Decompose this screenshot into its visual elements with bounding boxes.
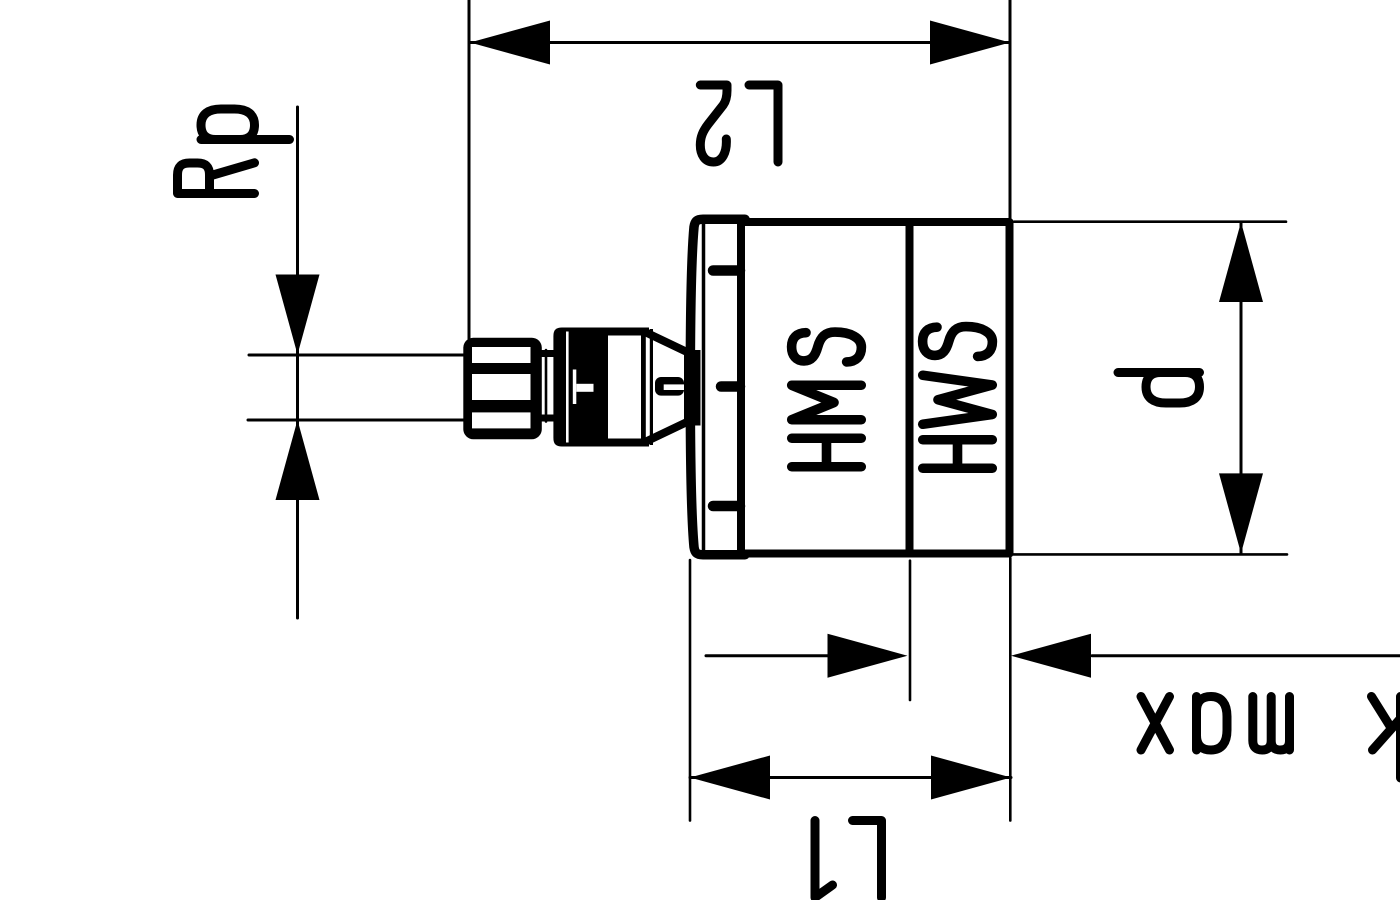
arrowhead k max right xyxy=(1011,634,1091,678)
neck bottom wall xyxy=(536,415,557,422)
nut window bottom xyxy=(472,412,531,428)
label k max xyxy=(1141,697,1400,779)
dimension line k max left tail xyxy=(706,654,830,657)
neck top wall xyxy=(536,350,557,357)
label HMS xyxy=(792,332,862,467)
arrowhead L2 right xyxy=(930,21,1010,65)
label Rp xyxy=(178,109,290,194)
cone top edge xyxy=(645,332,688,353)
label HWS xyxy=(923,327,993,469)
extension line divider xyxy=(909,561,912,700)
arrowhead d top xyxy=(1219,222,1263,302)
nut (thread fitting) xyxy=(463,338,542,440)
cap tick bottom xyxy=(713,501,740,512)
cap face line xyxy=(702,222,706,552)
dimension line k max right tail xyxy=(1092,654,1400,657)
barrel top band xyxy=(608,328,649,336)
bleed slot stem xyxy=(573,370,577,405)
cone bottom edge xyxy=(645,422,688,443)
divider line xyxy=(906,222,914,553)
union sleeve (black) xyxy=(553,328,608,447)
extension line L1 left xyxy=(689,560,692,821)
dimension line Rp xyxy=(296,107,299,618)
nut window middle xyxy=(472,374,531,400)
dimension line d xyxy=(1240,222,1243,553)
extension line d bottom xyxy=(1013,553,1287,556)
extension line Rp bottom xyxy=(248,419,467,422)
dimension line L2 xyxy=(470,41,1010,44)
cap (dome) xyxy=(690,219,745,555)
arrowhead Rp upper xyxy=(276,275,320,355)
barrel bottom band xyxy=(608,439,649,447)
extension line right face xyxy=(1009,558,1012,821)
arrowhead L2 left xyxy=(470,21,550,65)
housing body xyxy=(741,222,1010,554)
pin slit xyxy=(664,384,684,390)
cone edge line xyxy=(650,329,653,445)
arrowhead L1 right xyxy=(931,756,1011,800)
pin slit right part xyxy=(680,380,689,389)
arrowhead Rp lower xyxy=(276,420,320,500)
cap tick top xyxy=(713,265,740,276)
extension line d top xyxy=(1014,220,1286,223)
extension line L2 right xyxy=(1009,0,1012,219)
cap tick middle xyxy=(721,381,740,392)
arrowhead k max left xyxy=(828,634,908,678)
flange line xyxy=(641,328,646,447)
nut window top xyxy=(472,347,531,363)
bleed slot bar xyxy=(576,384,593,392)
arrowhead L1 left xyxy=(690,756,770,800)
label L2 xyxy=(700,85,778,162)
arrowhead d bottom xyxy=(1219,473,1263,553)
stem pin xyxy=(655,377,684,396)
cone end flange xyxy=(684,350,701,426)
extension line L2 left xyxy=(468,0,471,339)
extension line Rp top xyxy=(249,354,467,357)
sleeve groove xyxy=(566,332,569,443)
dimension line L1 xyxy=(690,776,1011,779)
label L1 xyxy=(815,821,882,898)
label d xyxy=(1118,373,1200,404)
neck line xyxy=(545,350,548,422)
